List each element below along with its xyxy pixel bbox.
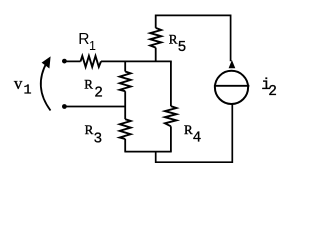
svg-text:1: 1: [89, 39, 96, 53]
wire R3 top lead: [124, 107, 126, 120]
wire bottom rail R3 to R4: [124, 151, 171, 153]
wire R4 bottom lead: [170, 126, 172, 151]
v1 source arc: [41, 62, 51, 111]
resistor R2: [120, 72, 131, 92]
node lower-left terminal dot: [62, 104, 67, 109]
wire R1 to R4 branch (top rail): [101, 60, 172, 62]
wire lower terminal to R2/R3 node: [64, 106, 125, 108]
svg-text:2: 2: [94, 86, 103, 102]
svg-text:3: 3: [94, 132, 103, 148]
svg-text:2: 2: [268, 84, 277, 100]
svg-text:R: R: [78, 31, 89, 48]
wire R5 bottom lead from top rail: [155, 48, 157, 62]
svg-text:R: R: [84, 77, 93, 92]
wire current source bottom: [156, 104, 233, 162]
resistor R5: [150, 28, 161, 48]
current source arrowhead: [229, 60, 236, 68]
resistor R1: [81, 56, 102, 67]
current source chord: [214, 85, 250, 87]
node upper-left terminal dot: [62, 59, 67, 64]
resistor R3: [120, 119, 131, 139]
wire R4 top lead from top rail: [170, 61, 172, 106]
wire R2 top lead: [124, 61, 126, 71]
svg-text:1: 1: [24, 84, 32, 99]
wire top run to current source: [156, 15, 231, 61]
wire R2 bottom lead: [124, 91, 126, 106]
wire upper terminal to R1: [64, 60, 81, 62]
current source i2 circle: [215, 71, 248, 104]
wire R5 top lead: [155, 15, 157, 28]
svg-text:5: 5: [178, 40, 187, 56]
svg-text:v: v: [14, 74, 23, 93]
svg-text:R: R: [85, 122, 94, 137]
resistor R4: [165, 106, 177, 126]
svg-text:R: R: [169, 32, 178, 47]
wire R3 bottom lead: [124, 139, 126, 152]
svg-text:4: 4: [193, 131, 202, 147]
v1 arrowhead: [42, 56, 51, 68]
